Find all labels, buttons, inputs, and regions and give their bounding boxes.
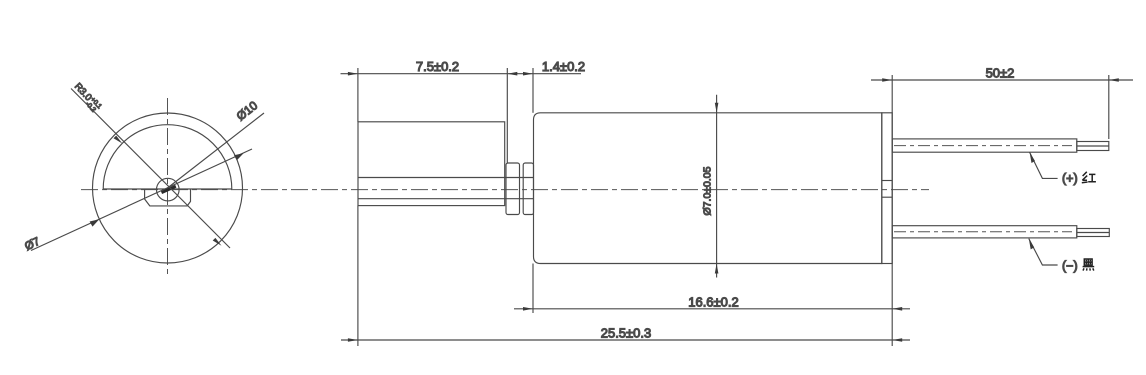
extension body left bottom — [532, 264, 534, 314]
lead wire black conductor — [1077, 229, 1110, 237]
motor outer circle front view (Ø7 body envelope) — [93, 113, 243, 263]
extension line body left top — [532, 68, 534, 113]
arrow at 263.5 pointing up — [715, 264, 719, 274]
arrow at 533 pointing right — [523, 72, 533, 76]
center line horizontal (main axis) — [81, 189, 929, 191]
lead wire red center line — [894, 145, 1072, 147]
shaft flat thick bar — [162, 186, 176, 192]
svg-text:(−): (−) — [1062, 259, 1078, 273]
end cap — [882, 113, 892, 264]
dim line 7.5 / 1.4 — [341, 73, 582, 75]
svg-text:7.5±0.2: 7.5±0.2 — [416, 59, 459, 74]
hanzi hong (red) — [1082, 172, 1096, 183]
arrow on R3.0 line lower-right — [213, 238, 222, 246]
svg-text:(+): (+) — [1062, 172, 1078, 186]
dim line 16.6 — [514, 308, 910, 310]
arrow at 507.3 pointing left — [507, 72, 517, 76]
shaft bottom line — [358, 198, 534, 200]
svg-text:16.6±0.2: 16.6±0.2 — [688, 295, 739, 310]
leader (-) black — [1029, 239, 1058, 265]
arrow at 1108.8 pointing left — [1109, 78, 1119, 82]
arrow on Ø7 line upper-right — [234, 153, 244, 160]
leader (+) red — [1030, 152, 1058, 178]
dim line 50 — [871, 79, 1133, 81]
extension line wire end — [1108, 75, 1110, 139]
eccentric weight half-disc arc R3.0 (front view) — [103, 125, 232, 189]
extension line weight left top — [357, 68, 359, 122]
lead wire red insulation — [892, 139, 1077, 152]
label R3.0 +0.1/-0.2 — [70, 81, 103, 115]
weight hub notch (front view) — [145, 189, 191, 206]
washer 1 — [506, 163, 520, 215]
arrow at 112.8 pointing down — [715, 103, 719, 113]
leader line Ø10 — [168, 113, 265, 188]
motor body (side view) — [534, 113, 882, 264]
washer 2 — [523, 163, 533, 215]
svg-text:Ø7.0±0.05: Ø7.0±0.05 — [702, 166, 714, 215]
leader line R3.0 — [71, 89, 230, 249]
arrow at 892.2 pointing right — [882, 78, 892, 82]
svg-text:25.5±0.3: 25.5±0.3 — [601, 326, 652, 341]
arrow at 357.9 pointing right — [348, 338, 358, 342]
center line vertical (front view) — [167, 98, 169, 278]
arrow on Ø7 line lower-left — [90, 219, 100, 226]
arrow on R3.0 line at inner arc — [114, 136, 123, 144]
arrow at 533 pointing right — [523, 307, 533, 311]
arrow at 357.9 pointing right — [348, 72, 358, 76]
extension weight left bottom — [357, 206, 359, 346]
weight body (side view) — [358, 122, 505, 206]
svg-text:Ø7: Ø7 — [23, 236, 42, 254]
lead wire black center line — [894, 231, 1072, 233]
shaft circle (front view) — [157, 178, 180, 201]
arrow at 892.2 pointing left dim25 — [892, 338, 902, 342]
shaft top line — [358, 177, 534, 179]
svg-text:1.4±0.2: 1.4±0.2 — [542, 59, 585, 74]
leader line Ø7 / diameter axis — [31, 149, 252, 251]
weight flat chord — [103, 188, 232, 190]
dim line Ø7.0 vertical — [716, 95, 718, 278]
lead wire red conductor — [1077, 142, 1109, 151]
arrow at 892.2 pointing left — [892, 307, 902, 311]
hanzi hei (black) — [1083, 259, 1095, 271]
extension line cap right (full) — [891, 75, 893, 346]
bearing boss in end cap — [882, 180, 892, 182]
extension line washer1 left — [506, 68, 508, 163]
svg-text:50±2: 50±2 — [986, 66, 1015, 81]
dim line 25.5 — [341, 339, 910, 341]
lead wire black insulation — [892, 226, 1077, 238]
